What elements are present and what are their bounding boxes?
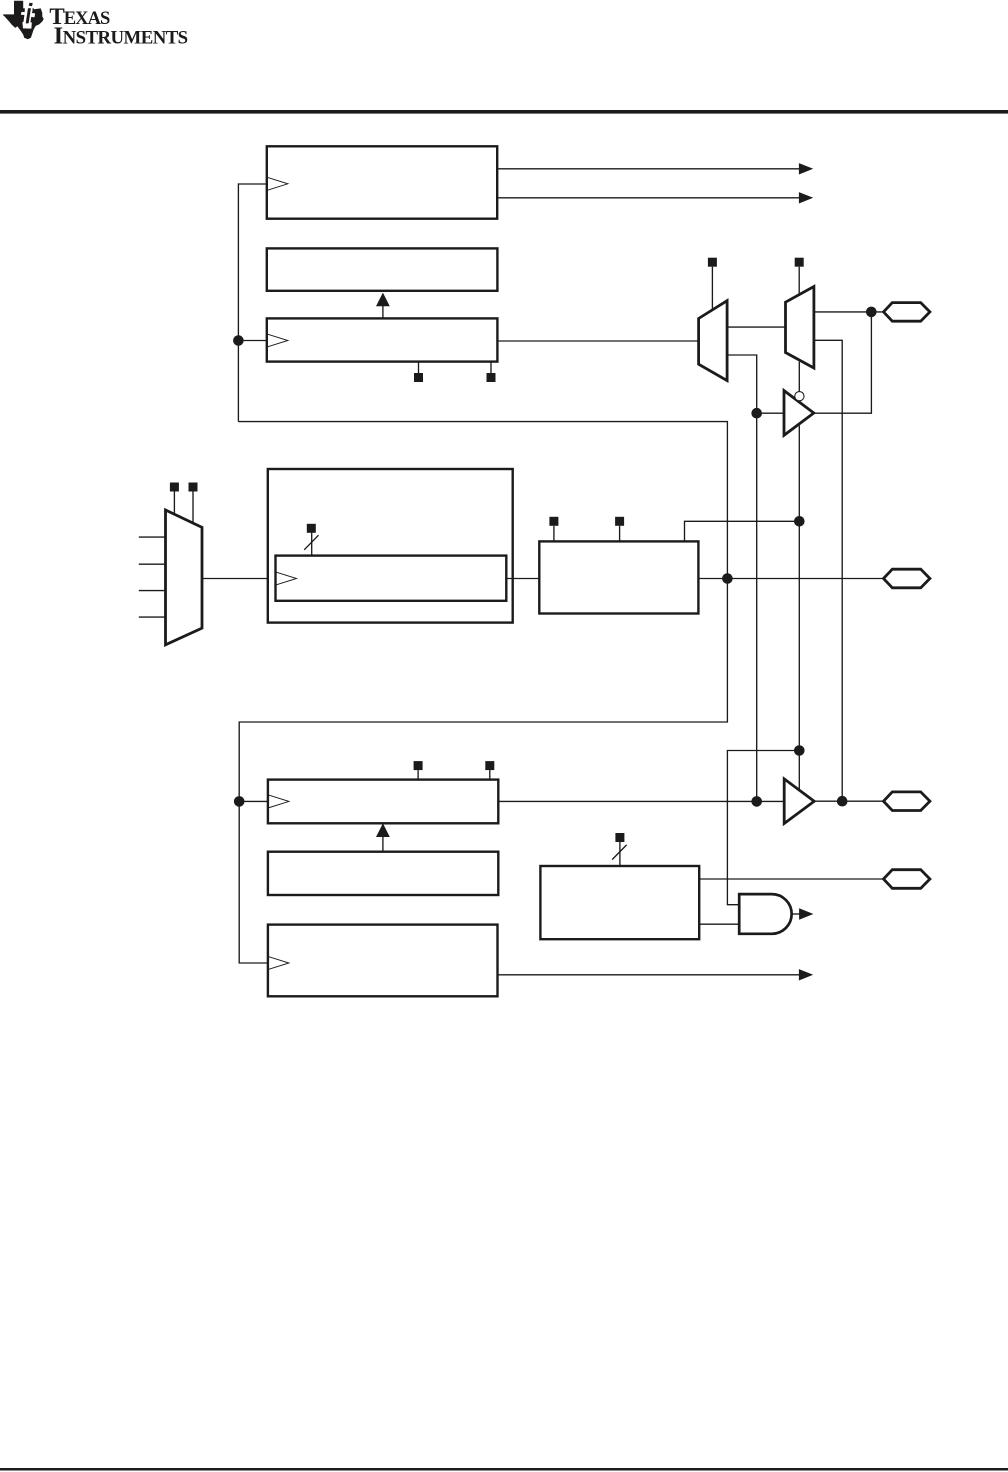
wire low box output 2 to AND: [699, 923, 739, 925]
AND gate G1: [739, 894, 791, 934]
IO pad hexagon 3: [884, 792, 930, 811]
wire counter output to pad: [698, 578, 884, 580]
big timer box: [268, 469, 513, 623]
header rule: [0, 110, 1008, 114]
footer rule: [0, 1468, 1008, 1471]
junction dot MUX2 output node: [866, 307, 877, 318]
control square low box: [615, 833, 624, 842]
wire left MUX input D1: [139, 563, 166, 565]
wire counter top elbow to net C: [685, 521, 800, 541]
IO pad hexagon 2: [884, 569, 930, 588]
control square left MUX 1: [170, 483, 179, 492]
wire enable elbow to AND gate: [727, 751, 799, 905]
wire left MUX input D3: [139, 616, 166, 618]
wire inner register select stem: [311, 533, 313, 556]
wire U1 output 1: [497, 168, 800, 170]
arrowhead AND out: [799, 908, 813, 919]
wire counter select stem 2: [619, 526, 621, 542]
enable bubble of U4: [795, 392, 804, 401]
arrowhead up RB to RA: [376, 823, 390, 837]
register U1: [267, 146, 497, 218]
wire left MUX input D2: [139, 590, 166, 592]
IO pad hexagon 1: [884, 303, 930, 322]
control square RA 2: [485, 761, 494, 770]
control square inner register: [307, 524, 316, 533]
TI logo Texas-map bug: [3, 1, 44, 40]
wire arrow stem up U3 to U2: [382, 304, 384, 318]
wire RA select stem 1: [417, 770, 419, 780]
clock chevron U1: [267, 177, 288, 190]
buffer U5: [784, 779, 814, 824]
wire clock to register RA: [239, 800, 268, 802]
wire control square stem S1: [418, 362, 420, 374]
control square MUX2: [795, 258, 804, 267]
IO pad hexagon 4: [884, 870, 930, 889]
junction dot buffer U4 input: [751, 408, 762, 419]
wire counter select stem 1: [553, 526, 555, 542]
wire inner register to counter box: [506, 578, 539, 580]
wire U3 output to MUX1: [497, 340, 698, 342]
wire buffer U4 output riser: [814, 312, 872, 413]
control square below U3 right: [487, 373, 496, 382]
wire left MUX output: [202, 578, 268, 580]
clock chevron RC: [268, 956, 289, 969]
left MUX 4-input: [166, 510, 203, 645]
junction dot net C enable: [794, 745, 805, 756]
counter box: [539, 541, 698, 613]
wire control square stem S2: [490, 362, 492, 374]
wire low box select stem: [619, 842, 621, 866]
wire MUX2 output to pad: [814, 311, 884, 313]
wire buffer U4 input: [757, 412, 784, 414]
wire clock bus vertical: [237, 183, 239, 421]
wire MUX1 to MUX2: [727, 326, 785, 328]
control square counter 1: [549, 517, 558, 526]
wire left MUX select stem 1: [173, 492, 175, 516]
wire MUX1 select stem: [711, 267, 713, 310]
wire low box output 1 to pad: [699, 878, 884, 880]
wire arrow stem up RB to RA: [382, 836, 384, 852]
wire RA output to buffer U5: [498, 800, 784, 802]
wire buffer U5 output to pad: [814, 800, 884, 802]
junction dot clock bus at RA: [234, 796, 245, 807]
junction dot bus A counter output: [722, 573, 733, 584]
clock chevron RA: [268, 795, 289, 808]
wire clock to register U3: [238, 340, 266, 342]
arrowhead RC out: [799, 969, 813, 980]
wire MUX2 select stem: [798, 267, 800, 295]
junction dot net C counter top: [794, 516, 805, 527]
register RB: [268, 852, 498, 895]
control square MUX1: [708, 258, 717, 267]
junction dot buffer U5 output: [837, 796, 848, 807]
inner register box: [276, 556, 507, 601]
control square RA 1: [414, 761, 423, 770]
control square left MUX 2: [189, 483, 198, 492]
wire clock input to register U1: [238, 183, 266, 185]
clock chevron inner register: [276, 572, 297, 585]
register RA: [268, 780, 498, 824]
wire AND output: [792, 913, 800, 915]
MUX1: [699, 301, 728, 381]
wire feedback bus A: [238, 422, 727, 963]
tri-state buffer U4: [784, 391, 814, 436]
wire net C vertical bus: [798, 426, 800, 791]
arrowhead U1 out 2: [799, 192, 813, 203]
register U3: [267, 318, 498, 361]
MUX2: [786, 287, 814, 369]
arrowhead U1 out 1: [799, 163, 813, 174]
register U2: [267, 248, 498, 290]
svg-text:INSTRUMENTS: INSTRUMENTS: [54, 23, 188, 50]
arrowhead up U3 to U2: [376, 293, 390, 307]
low compare box: [540, 866, 699, 939]
bus slash inner register: [304, 535, 318, 550]
wire RA select stem 2: [489, 770, 491, 780]
control square counter 2: [615, 517, 624, 526]
wire U1 output 2: [497, 197, 800, 199]
wire MUX2 enable vertical to bubble: [798, 362, 800, 392]
bus slash low box: [612, 845, 627, 860]
wire RC output: [498, 974, 801, 976]
control square below U3 left: [414, 373, 423, 382]
junction dot buffer U5 input: [751, 796, 762, 807]
clock chevron U3: [267, 334, 288, 347]
wire MUX1 lower output elbow: [727, 355, 757, 801]
register RC: [268, 925, 498, 997]
wire left MUX input D0: [139, 536, 166, 538]
wire MUX2 second output elbow down: [814, 340, 842, 801]
wire left MUX select stem 2: [192, 492, 194, 525]
junction dot clock bus at U3: [233, 335, 244, 346]
